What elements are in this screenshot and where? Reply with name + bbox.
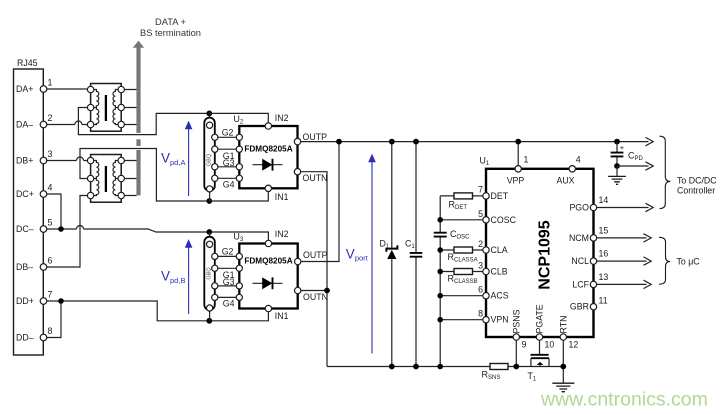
transistor T1 [528, 355, 550, 383]
pin DB+ 3 [16, 149, 53, 166]
node VPN bus [437, 317, 443, 323]
pin GBR 11 [570, 296, 608, 312]
resistor RCLASSB [437, 269, 482, 285]
svg-text:1: 1 [48, 78, 53, 88]
svg-text:5: 5 [478, 209, 483, 219]
wire DC+ down to DC- node [47, 194, 61, 229]
svg-text:+: + [620, 143, 625, 152]
gate wires G2 G1 G3 G4 of U2 [215, 137, 240, 178]
wire DA- to transformer T1 (hop over CT wire) [47, 124, 87, 126]
arrowhead top rail [646, 137, 654, 145]
wire VPP to top rail [517, 142, 519, 166]
svg-text:DD+: DD+ [16, 296, 34, 306]
RJ45 connector body [14, 58, 44, 355]
brace To uC [659, 237, 670, 284]
svg-text:PSNS: PSNS [511, 309, 521, 333]
svg-text:ACS: ACS [491, 291, 509, 301]
node bus to bottom rail [437, 364, 443, 370]
svg-text:DB+: DB+ [16, 156, 33, 166]
pin VPN 8 [478, 309, 509, 325]
wire DD- up to DD+ node [47, 301, 61, 338]
svg-text:VPN: VPN [491, 315, 509, 325]
transformer TX1 body [87, 84, 124, 132]
arrow PGO [597, 203, 653, 211]
svg-text:IN1: IN1 [275, 192, 289, 202]
arrow Vpd.A [161, 121, 192, 196]
svg-text:DC+: DC+ [16, 189, 34, 199]
pin CLA 2 [478, 239, 508, 255]
svg-text:G2: G2 [222, 128, 234, 138]
svg-text:6: 6 [478, 285, 483, 295]
wire TX2 secondary to termination bar [124, 161, 136, 196]
top rail OUTP [301, 141, 649, 143]
wire DB- up to transformer T2 [47, 196, 88, 268]
svg-text:3: 3 [48, 149, 53, 159]
wire DD+ to lower bridge bottom [47, 301, 269, 321]
wire PGATE to gate [539, 340, 541, 355]
resistor RSNS [482, 364, 509, 382]
wire node to pill U3 [209, 232, 211, 321]
pin DET 7 [478, 184, 509, 201]
svg-text:CLB: CLB [491, 267, 508, 277]
node below CPD [614, 163, 620, 169]
svg-text:16: 16 [599, 249, 609, 259]
svg-text:RJ45: RJ45 [17, 58, 38, 68]
node lower bridge bottom [206, 318, 212, 324]
svg-text:G2: G2 [222, 247, 234, 257]
node OUTN junction [324, 288, 330, 294]
svg-text:DA+: DA+ [16, 84, 33, 94]
termination arrow DATA + BS [133, 17, 201, 195]
svg-text:COSC: COSC [491, 215, 517, 225]
svg-text:LCF: LCF [572, 279, 589, 289]
node ACS bus [437, 293, 443, 299]
svg-text:To DC/DC: To DC/DC [677, 176, 717, 186]
svg-text:OUTP: OUTP [303, 132, 328, 142]
svg-text:RTN: RTN [558, 316, 568, 334]
pin PGATE 10 [535, 304, 555, 349]
pin DB- 6 [16, 256, 53, 273]
wire DA+ to transformer T1 [47, 88, 87, 90]
svg-text:Controller: Controller [677, 186, 715, 196]
svg-text:2: 2 [478, 239, 483, 249]
wire upper bridge bottom node to IN1 [209, 192, 268, 202]
node ground junction [560, 364, 566, 370]
svg-text:PGATE: PGATE [535, 304, 545, 333]
node lower bridge top [206, 229, 212, 235]
ground below CPD [616, 166, 618, 176]
svg-text:NCP1095: NCP1095 [537, 220, 554, 289]
pin AUX 4 [556, 155, 580, 186]
pin ACS 6 [478, 285, 509, 301]
node VPP rail [515, 139, 521, 145]
wire ACS to bus [440, 295, 483, 297]
pin DD- 8 [16, 326, 53, 343]
svg-text:To μC: To μC [677, 257, 701, 267]
svg-text:9: 9 [522, 340, 527, 350]
wire TX1 secondary to termination bar [124, 90, 136, 125]
gate wires G2 G1 G3 G4 of U3 [215, 256, 240, 297]
wire DC pair to lower bridge (hop over DB- riser) [47, 229, 269, 240]
svg-text:4: 4 [576, 155, 581, 165]
svg-text:12: 12 [569, 340, 579, 350]
svg-text:3: 3 [478, 261, 483, 271]
resistor RCLASSA [437, 247, 482, 263]
svg-text:FDMQ8205A: FDMQ8205A [244, 144, 292, 153]
pin COSC 5 [478, 209, 516, 225]
pin PSNS 9 [511, 309, 526, 349]
arrow Vport [346, 154, 376, 354]
wire TX2 center tap to upper bridge bottom [80, 149, 209, 202]
node upper bridge top [206, 111, 212, 117]
svg-text:FDMQ8205A: FDMQ8205A [244, 257, 292, 266]
pin VPP 1 [507, 155, 529, 186]
gate pin circles U3 [212, 253, 243, 300]
wire node to pill U2 [209, 113, 211, 201]
svg-text:VPP: VPP [507, 176, 525, 186]
svg-text:IN2: IN2 [275, 229, 289, 239]
svg-text:5: 5 [48, 218, 53, 228]
svg-text:8: 8 [48, 326, 53, 336]
arrow LCF [597, 280, 651, 288]
GBQ pill U3 [204, 237, 215, 311]
wire upper OUTN down to bottom rail [301, 172, 327, 367]
node upper bridge bottom [206, 198, 212, 204]
wire VPN to bus [440, 319, 483, 321]
svg-text:OUTN: OUTN [303, 292, 328, 302]
arrow aux output [617, 162, 653, 170]
svg-text:OUTP: OUTP [303, 250, 328, 260]
svg-text:IN2: IN2 [275, 113, 289, 123]
svg-text:7: 7 [478, 184, 483, 194]
svg-text:NCL: NCL [571, 256, 589, 266]
svg-text:DD–: DD– [16, 333, 34, 343]
pin DA- 2 [16, 113, 53, 130]
pin NCL 16 [571, 249, 608, 267]
resistor RDET [440, 193, 483, 211]
pin DD+ 7 [16, 290, 53, 307]
capacitor CPD [611, 142, 644, 166]
pin DA+ 1 [16, 78, 53, 95]
svg-text:G3: G3 [223, 158, 235, 168]
GBQ pill U2 [204, 118, 215, 192]
wire hop DA- [75, 121, 82, 124]
gate pin circles U2 [212, 134, 243, 181]
brace To DC/DC Controller [660, 136, 671, 208]
wire hop DB+ [77, 157, 84, 161]
svg-text:13: 13 [599, 272, 609, 282]
svg-text:NCM: NCM [569, 233, 589, 243]
svg-text:1: 1 [524, 155, 529, 165]
pin LCF 13 [572, 272, 608, 290]
bridge U3 FDMQ8205A [239, 240, 301, 311]
arrow NCL [597, 257, 651, 265]
wire RTN down to ground [562, 340, 564, 383]
pin DC- 5 [16, 218, 53, 235]
node DC junction [58, 226, 64, 232]
arrow Vpd.B [161, 239, 192, 314]
wire upper bridge top node to IN2 [209, 113, 268, 122]
wire lower OUTN to OUTN riser [301, 290, 327, 292]
svg-text:8: 8 [478, 309, 483, 319]
wire lower OUTP up to top rail [301, 142, 339, 262]
pin PGO 14 [569, 195, 608, 213]
bottom rail [327, 366, 563, 368]
svg-text:DA–: DA– [16, 120, 33, 130]
svg-text:10: 10 [545, 340, 555, 350]
wire PSNS down [515, 340, 517, 366]
svg-text:AUX: AUX [556, 176, 574, 186]
svg-text:PGO: PGO [569, 203, 589, 213]
bridge U2 FDMQ8205A [239, 123, 300, 192]
svg-text:GBQ: GBQ [207, 153, 213, 166]
svg-text:DATA +: DATA + [155, 17, 186, 27]
pin CLB 3 [478, 261, 508, 277]
capacitor COSC [434, 229, 470, 241]
svg-text:14: 14 [599, 195, 609, 205]
svg-text:7: 7 [48, 290, 53, 300]
node PSNS rail [513, 364, 519, 370]
arrow NCM [597, 234, 651, 242]
svg-text:G4: G4 [223, 179, 235, 189]
node lower OUTP at rail [336, 139, 342, 145]
svg-text:11: 11 [599, 296, 608, 306]
pin RTN 12 [558, 316, 578, 350]
node COSC bus [437, 217, 443, 223]
node CPD rail [614, 139, 620, 145]
svg-text:2: 2 [48, 113, 53, 123]
IC U1 NCP1095 body [486, 169, 594, 337]
svg-text:BS termination: BS termination [140, 28, 201, 38]
svg-text:IN1: IN1 [275, 311, 289, 321]
wire hop DC [77, 226, 84, 230]
wire COSC to bus [440, 219, 483, 221]
wire TX1 center tap to upper bridge top [78, 108, 209, 135]
wire DB+ to transformer T2 (hop) [47, 160, 88, 162]
diode D1 (TVS) [380, 139, 398, 370]
pin DC+ 4 [16, 183, 53, 200]
svg-text:CLA: CLA [491, 245, 508, 255]
svg-text:DC–: DC– [16, 224, 34, 234]
svg-text:DET: DET [491, 191, 509, 201]
VPN bus vertical [439, 196, 441, 367]
svg-text:OUTN: OUTN [303, 173, 328, 183]
node DD junction [58, 298, 64, 304]
svg-text:4: 4 [48, 183, 53, 193]
svg-text:6: 6 [48, 256, 53, 266]
pin NCM 15 [569, 225, 608, 243]
svg-text:G3: G3 [223, 277, 235, 287]
ground at RTN [552, 383, 574, 392]
svg-text:15: 15 [599, 225, 609, 235]
transformer TX2 body [87, 155, 124, 203]
svg-text:GBR: GBR [570, 302, 589, 312]
svg-text:DB–: DB– [16, 262, 33, 272]
svg-text:G4: G4 [223, 298, 235, 308]
capacitor C1 [405, 139, 422, 370]
svg-text:www.cntronics.com: www.cntronics.com [540, 389, 708, 411]
